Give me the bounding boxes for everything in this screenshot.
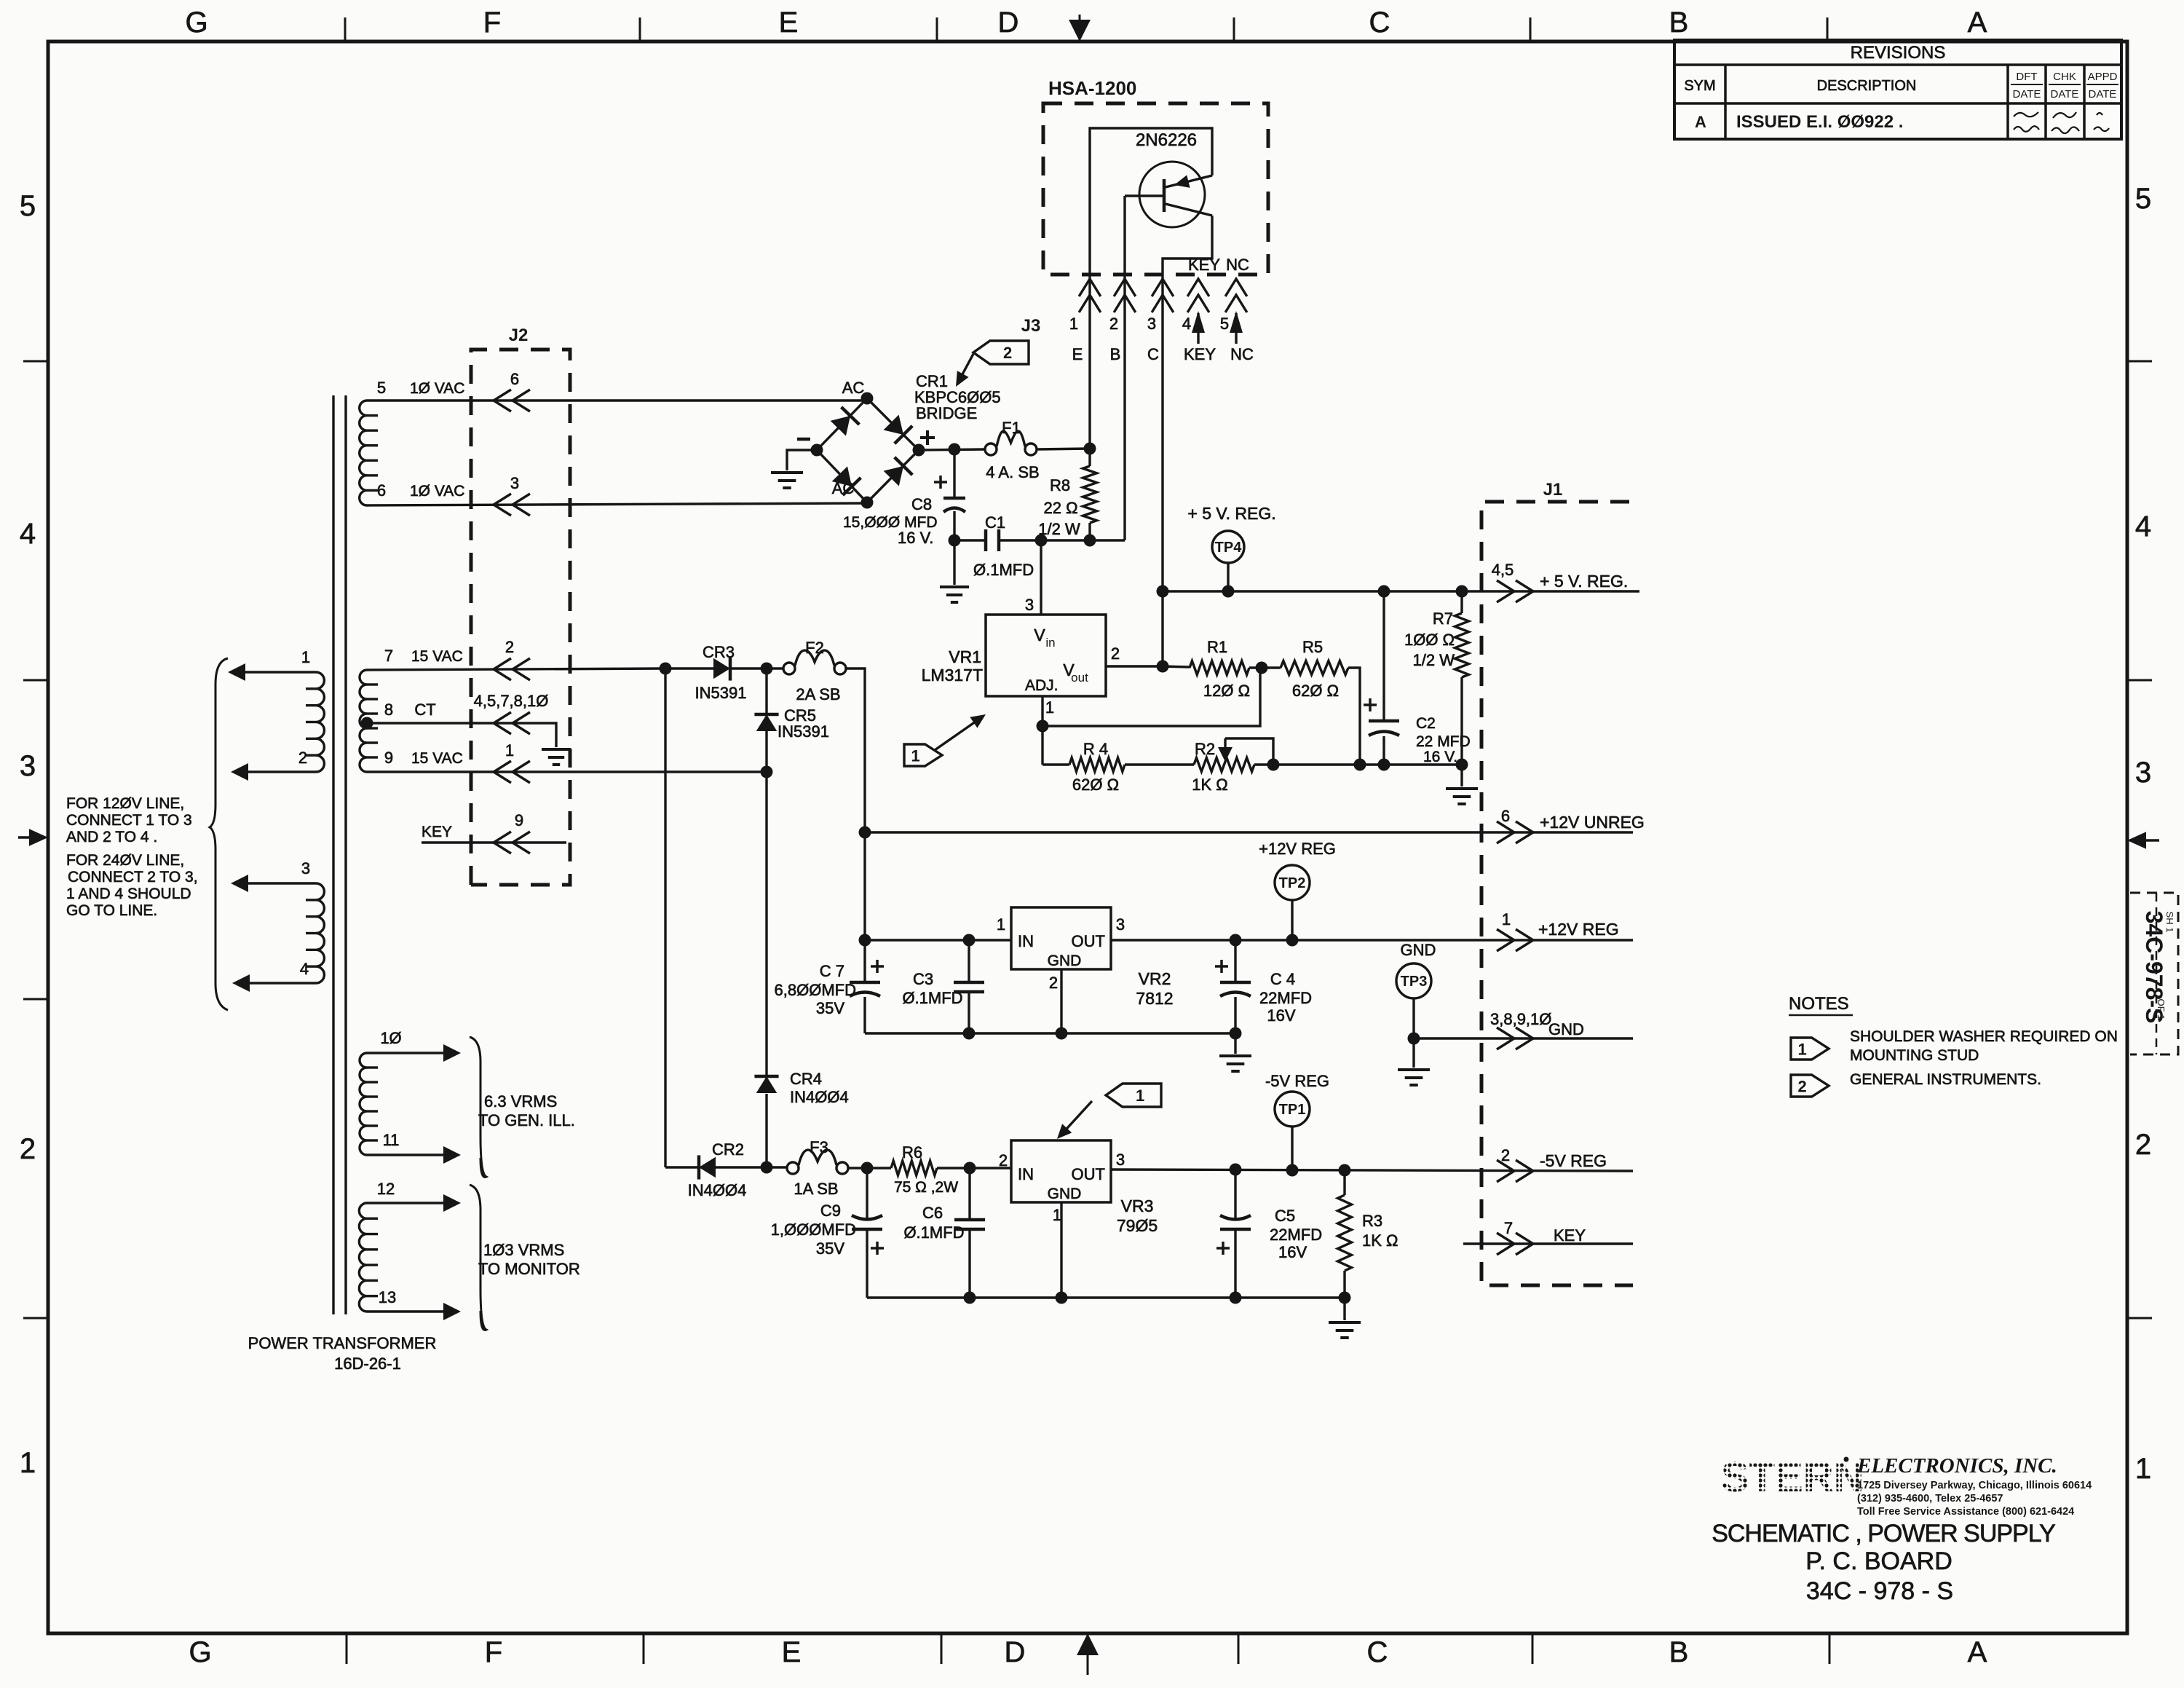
right center alignment arrow: [2127, 832, 2146, 848]
J2 dashed connector box: [471, 350, 570, 885]
svg-text:GND: GND: [1401, 941, 1436, 959]
node R2 right: [1267, 759, 1280, 771]
bridge diode bottom-left: [832, 466, 852, 486]
svg-text:DATE: DATE: [2051, 88, 2079, 100]
svg-text:2: 2: [1501, 1146, 1510, 1164]
capacitor C1: [984, 529, 988, 551]
svg-text:1: 1: [1045, 698, 1054, 717]
svg-text:+12V REG: +12V REG: [1259, 840, 1336, 858]
J2 KEY chevrons: [494, 832, 511, 853]
fuse F2: [783, 663, 795, 674]
svg-text:4: 4: [20, 518, 36, 550]
J3 pin 3 chevrons: [1152, 279, 1174, 296]
svg-text:F: F: [485, 1636, 502, 1668]
svg-text:15 VAC: 15 VAC: [411, 750, 463, 767]
wire C pin to Vout node: [1161, 591, 1163, 666]
VR2 IN rail: [865, 939, 1011, 941]
svg-text:2N6226: 2N6226: [1136, 130, 1197, 150]
svg-text:C 7: C 7: [820, 962, 844, 980]
capacitor C7: [863, 940, 866, 982]
node F1 output: [1084, 443, 1096, 455]
svg-text:DATE: DATE: [2089, 88, 2117, 100]
svg-text:R 4: R 4: [1083, 740, 1108, 758]
resistor R3: [1343, 1170, 1345, 1195]
wire pin7 node down: [664, 669, 666, 1167]
resistor R8: [1088, 449, 1091, 466]
svg-text:5: 5: [377, 379, 386, 397]
svg-text:CR3: CR3: [703, 643, 735, 661]
svg-text:2: 2: [1111, 644, 1120, 663]
svg-text:+12V REG: +12V REG: [1538, 920, 1619, 939]
svg-text:34C - 978 - S: 34C - 978 - S: [1806, 1577, 1953, 1605]
node TP4: [1222, 585, 1235, 598]
-5V rail: [1111, 1170, 1633, 1171]
wire pin8 CT: [367, 722, 518, 724]
svg-text:OUT: OUT: [1072, 932, 1105, 950]
node C3 bottom: [963, 1028, 976, 1040]
secondary 15VAC coil pins 7-8-9: [360, 670, 367, 772]
primary pin 3 wire: [234, 882, 316, 884]
svg-text:22MFD: 22MFD: [1259, 989, 1312, 1007]
svg-text:3: 3: [1025, 596, 1034, 614]
VR2 ground rail: [865, 1032, 1235, 1034]
svg-text:R5: R5: [1302, 638, 1323, 656]
ground below C8: [953, 540, 955, 585]
diode CR5: [765, 669, 767, 714]
secondary 6.3V coil pins 10-11: [360, 1053, 367, 1155]
bridge diode bottom-right: [884, 466, 903, 486]
primary winding 3-4 coil: [316, 883, 324, 983]
svg-text:R6: R6: [902, 1143, 922, 1162]
resistor R6: [891, 1161, 937, 1175]
primary winding 1-2 coil: [316, 672, 324, 772]
svg-text:12: 12: [377, 1180, 395, 1198]
node R1-R5: [1256, 662, 1268, 674]
svg-text:TP2: TP2: [1279, 875, 1306, 891]
wire Vout: [1106, 665, 1163, 667]
revisions table: [1674, 40, 2121, 139]
svg-text:REVISIONS: REVISIONS: [1851, 43, 1946, 63]
svg-text:NC: NC: [1226, 256, 1249, 274]
J1 dashed connector: [1481, 502, 1633, 1285]
svg-text:4: 4: [2135, 510, 2151, 543]
node R7 bottom: [1456, 759, 1468, 771]
svg-text:6,8ØØMFD: 6,8ØØMFD: [775, 981, 856, 999]
GND output line: [1414, 1037, 1633, 1039]
primary brace: [210, 658, 228, 1010]
svg-text:C: C: [1369, 7, 1390, 39]
wire rail to B pin corner: [1090, 539, 1125, 541]
svg-text:F1: F1: [1002, 419, 1021, 437]
svg-text:3: 3: [2135, 757, 2151, 789]
bridge CR1 diamond: [817, 398, 919, 502]
node R3 top: [1339, 1164, 1351, 1177]
svg-text:2: 2: [1003, 344, 1012, 362]
svg-text:35V: 35V: [816, 1239, 844, 1258]
transformer core: [332, 395, 334, 1314]
svg-text:FOR 24ØV LINE,: FOR 24ØV LINE,: [66, 852, 184, 869]
minus label: [797, 438, 810, 441]
J1 +12V reg chevrons: [1497, 929, 1514, 951]
node TP2: [1286, 934, 1299, 947]
svg-text:KEY: KEY: [1184, 345, 1216, 363]
svg-text:IN: IN: [1018, 1165, 1034, 1183]
svg-text:GND: GND: [1048, 1186, 1082, 1202]
svg-text:D: D: [998, 7, 1019, 39]
center tap junction: [361, 717, 373, 730]
right zone ticks: [2127, 361, 2152, 1318]
node C5 top: [1230, 1164, 1242, 1176]
svg-text:CT: CT: [414, 701, 435, 719]
svg-text:E: E: [782, 1636, 802, 1668]
svg-text:1: 1: [20, 1447, 36, 1479]
J2 CT chevrons: [494, 712, 511, 734]
wire pin12: [367, 1202, 455, 1204]
svg-text:22 Ω: 22 Ω: [1043, 499, 1077, 517]
svg-text:LM317T: LM317T: [922, 666, 983, 685]
wire to C2 bottom: [1360, 763, 1384, 765]
resistor R1: [1190, 661, 1249, 675]
svg-text:DESCRIPTION: DESCRIPTION: [1817, 78, 1917, 94]
wire pin7 branch corner to CR2: [665, 1166, 697, 1168]
svg-text:1K Ω: 1K Ω: [1192, 776, 1227, 794]
node R8 bottom: [1084, 535, 1096, 547]
note flag 1 at VR1: [904, 744, 942, 766]
secondary 103V coil pins 12-13: [359, 1203, 367, 1312]
diode CR4: [756, 1076, 778, 1093]
svg-text:7: 7: [384, 647, 393, 665]
svg-text:DFT: DFT: [2016, 71, 2037, 83]
node C4 top: [1230, 934, 1242, 947]
wire R5 to C2 rail: [1348, 668, 1360, 765]
svg-text:CR4: CR4: [790, 1070, 822, 1088]
svg-text:KEY: KEY: [1188, 256, 1220, 274]
svg-text:TP1: TP1: [1279, 1102, 1306, 1118]
node C9 top: [861, 1162, 874, 1175]
wire ADJ stem: [1041, 696, 1043, 726]
svg-text:V: V: [1034, 626, 1045, 644]
bottom center alignment arrow: [1077, 1633, 1099, 1655]
svg-text:A: A: [1968, 7, 1987, 39]
+5V rail: [1163, 590, 1639, 592]
svg-text:5: 5: [1220, 315, 1229, 333]
svg-text:4: 4: [300, 960, 309, 978]
svg-text:75 Ω ,2W: 75 Ω ,2W: [894, 1179, 958, 1196]
svg-text:-5V REG: -5V REG: [1540, 1151, 1607, 1170]
svg-text:4: 4: [1182, 315, 1191, 333]
wire pin5 line to bridge AC top: [866, 398, 868, 401]
svg-text:1: 1: [2135, 1453, 2151, 1485]
diode CR2: [699, 1157, 716, 1178]
svg-text:3: 3: [1147, 315, 1156, 333]
svg-text:BRIDGE: BRIDGE: [916, 404, 977, 422]
svg-text:12Ø Ω: 12Ø Ω: [1203, 682, 1250, 700]
svg-text:1ØØ Ω: 1ØØ Ω: [1404, 631, 1455, 649]
svg-text:OUT: OUT: [1072, 1165, 1105, 1183]
svg-text:F2: F2: [805, 639, 824, 657]
node C8 bottom rail: [949, 535, 961, 547]
node VR2 IN rail: [859, 934, 871, 947]
J1 GND chevrons: [1497, 1028, 1514, 1049]
ground at C2 R7 rail: [1460, 765, 1463, 786]
svg-text:SYM: SYM: [1684, 78, 1715, 94]
base wire to pin 2: [1123, 196, 1125, 540]
svg-text:J3: J3: [1021, 316, 1041, 336]
wire R2 to R5 drop: [1254, 763, 1360, 765]
svg-text:CONNECT 2 TO 3,: CONNECT 2 TO 3,: [68, 869, 198, 886]
fuse F3: [787, 1162, 799, 1174]
svg-text:6: 6: [1501, 807, 1510, 825]
wire F2 corner down to IN rail: [863, 832, 866, 940]
svg-text:1725 Diversey Parkway, Chicago: 1725 Diversey Parkway, Chicago, Illinois…: [1857, 1480, 2092, 1491]
svg-text:9: 9: [515, 811, 523, 829]
svg-text:C6: C6: [922, 1204, 943, 1222]
svg-text:IN: IN: [1018, 932, 1034, 950]
svg-text:Toll Free Service Assistance (: Toll Free Service Assistance (800) 621-6…: [1857, 1506, 2074, 1518]
node TP3 gnd line: [1408, 1033, 1420, 1045]
svg-text:C1: C1: [985, 513, 1005, 532]
TP1 stem: [1291, 1127, 1293, 1170]
svg-text:CR2: CR2: [712, 1140, 744, 1159]
svg-text:DATE: DATE: [2013, 88, 2041, 100]
node bridge AC top: [861, 393, 874, 405]
J1 KEY chevrons: [1497, 1233, 1514, 1255]
svg-text:IN5391: IN5391: [778, 722, 829, 741]
svg-text:MOUNTING STUD: MOUNTING STUD: [1850, 1047, 1979, 1064]
svg-text:J1: J1: [1543, 480, 1563, 500]
wire pin7 node to CR3: [665, 667, 714, 669]
ground below TP3: [1412, 1038, 1415, 1068]
potentiometer R2: [1194, 758, 1254, 772]
svg-text:HSA-1200: HSA-1200: [1048, 77, 1136, 99]
svg-text:R8: R8: [1050, 476, 1070, 494]
svg-text:GENERAL INSTRUMENTS.: GENERAL INSTRUMENTS.: [1850, 1071, 2041, 1088]
TP3 test point: [1396, 963, 1431, 998]
svg-text:2A SB: 2A SB: [796, 685, 840, 703]
node R7 top: [1456, 585, 1468, 598]
svg-text:IN4ØØ4: IN4ØØ4: [688, 1181, 747, 1199]
node bridge minus: [811, 444, 823, 457]
TP1 test point: [1275, 1092, 1310, 1127]
J2 pin 3 chevrons: [494, 494, 511, 516]
node bridge plus: [913, 444, 925, 457]
svg-text:ELECTRONICS, INC.: ELECTRONICS, INC.: [1856, 1454, 2057, 1478]
left zone numbers 5-1: [20, 190, 36, 1479]
svg-text:Ø.1MFD: Ø.1MFD: [973, 561, 1034, 579]
svg-text:1: 1: [1136, 1086, 1144, 1105]
regulator VR1 box: [986, 615, 1106, 696]
svg-text:B: B: [1669, 7, 1689, 39]
bottom zone ticks: [347, 1633, 1829, 1664]
svg-text:2: 2: [1797, 1077, 1806, 1095]
svg-text:TO GEN. ILL.: TO GEN. ILL.: [478, 1111, 575, 1129]
J3 pin 5 chevrons: [1225, 279, 1247, 296]
svg-text:SH 1: SH 1: [2164, 912, 2175, 933]
transistor Q1 2N6226 circle: [1139, 162, 1205, 227]
svg-text:APPD: APPD: [2088, 71, 2118, 83]
+12V unreg rail: [865, 831, 1633, 833]
svg-text:35V: 35V: [816, 999, 844, 1017]
svg-text:J2: J2: [509, 326, 529, 345]
svg-text:Ø.1MFD: Ø.1MFD: [903, 1223, 964, 1242]
bridge diode top-right: [884, 415, 903, 435]
node C2 bottom: [1378, 759, 1390, 771]
svg-text:F3: F3: [810, 1138, 828, 1156]
J2 pin 1 chevrons: [494, 761, 511, 783]
CT ground: [542, 748, 571, 751]
regulator VR2 box: [1011, 907, 1111, 969]
svg-text:SCHEMATIC , POWER SUPPLY: SCHEMATIC , POWER SUPPLY: [1712, 1520, 2055, 1547]
svg-text:GND: GND: [1048, 953, 1082, 969]
TP4 stem: [1227, 563, 1229, 591]
secondary 10VAC coil pins 5-6: [360, 401, 367, 505]
node C2 top: [1378, 585, 1390, 598]
resistor R7: [1460, 591, 1463, 613]
svg-text:+12V UNREG: +12V UNREG: [1540, 813, 1645, 832]
svg-text:OF 1: OF 1: [2156, 999, 2167, 1020]
svg-text:-5V REG: -5V REG: [1265, 1072, 1329, 1090]
svg-text:2: 2: [298, 749, 307, 767]
wire C2 bottom to gnd node: [1384, 763, 1462, 765]
svg-text:C2: C2: [1416, 715, 1436, 732]
primary pin 4 wire: [236, 982, 316, 984]
svg-text:FOR 12ØV LINE,: FOR 12ØV LINE,: [66, 795, 184, 812]
svg-text:16V: 16V: [1278, 1243, 1307, 1261]
node VR3 gnd bottom: [1056, 1292, 1068, 1304]
svg-text:6.3 VRMS: 6.3 VRMS: [484, 1092, 557, 1111]
VR2 OUT rail +12V: [1111, 939, 1633, 941]
svg-text:1/2 W: 1/2 W: [1038, 520, 1080, 538]
svg-text:1: 1: [505, 741, 514, 760]
svg-text:1: 1: [1797, 1040, 1806, 1058]
svg-text:2: 2: [999, 1151, 1008, 1170]
TP2 test point: [1275, 865, 1310, 900]
svg-text:1: 1: [997, 915, 1005, 934]
svg-text:1Ø3 VRMS: 1Ø3 VRMS: [483, 1241, 564, 1259]
svg-text:3: 3: [20, 750, 36, 782]
right zone numbers 5-1: [2135, 183, 2151, 1485]
svg-text:TO MONITOR: TO MONITOR: [478, 1260, 580, 1278]
TP3 stem: [1412, 998, 1415, 1038]
svg-text:in: in: [1045, 636, 1055, 650]
capacitor C5: [1234, 1170, 1236, 1220]
KEY stub wire: [422, 841, 566, 843]
svg-text:22MFD: 22MFD: [1270, 1226, 1322, 1244]
svg-text:79Ø5: 79Ø5: [1117, 1216, 1158, 1235]
wire Vout to R1: [1163, 666, 1190, 667]
svg-text:4,5: 4,5: [1492, 561, 1514, 579]
svg-text:CONNECT 1 TO 3: CONNECT 1 TO 3: [66, 812, 192, 829]
svg-text:4 A. SB: 4 A. SB: [986, 463, 1039, 481]
transistor Q1 collector lead: [1166, 204, 1212, 216]
svg-text:6: 6: [377, 481, 386, 500]
svg-text:R1: R1: [1207, 638, 1227, 656]
svg-text:P. C. BOARD: P. C. BOARD: [1805, 1547, 1952, 1575]
wire R6 to VR3: [937, 1167, 1011, 1169]
bracket 103VRMS: [470, 1185, 486, 1330]
svg-text:C 4: C 4: [1270, 970, 1295, 988]
wire pin13: [367, 1310, 455, 1312]
transistor Q1 base bar: [1163, 179, 1166, 212]
svg-text:62Ø Ω: 62Ø Ω: [1072, 776, 1119, 794]
svg-text:7: 7: [1504, 1219, 1513, 1237]
svg-text:IN5391: IN5391: [695, 684, 747, 702]
VR3 GND stem: [1060, 1202, 1062, 1298]
svg-text:16D-26-1: 16D-26-1: [334, 1354, 401, 1373]
svg-text:3,8,9,1Ø: 3,8,9,1Ø: [1490, 1010, 1551, 1028]
CT ground wire: [518, 723, 556, 747]
svg-text:ISSUED E.I. ØØ922 .: ISSUED E.I. ØØ922 .: [1736, 112, 1903, 132]
svg-text:1: 1: [1053, 1206, 1061, 1224]
capacitor C9: [866, 1168, 868, 1220]
node CR5 bottom: [761, 766, 773, 778]
svg-text:KEY: KEY: [422, 824, 452, 840]
wire Vin stem: [1040, 540, 1042, 615]
svg-text:+ 5 V. REG.: + 5 V. REG.: [1187, 504, 1275, 523]
svg-text:STERN: STERN: [1721, 1454, 1864, 1501]
note flag 2: [1791, 1075, 1829, 1097]
svg-text:3: 3: [1116, 915, 1125, 934]
node VR2 gnd: [1056, 1028, 1068, 1040]
svg-text:16V: 16V: [1267, 1006, 1295, 1025]
J1 +5V chevrons: [1497, 580, 1514, 602]
wire rail to R8 bottom: [1041, 539, 1090, 541]
ground below R3: [1343, 1298, 1345, 1320]
wire bridge plus to F1: [919, 449, 985, 450]
svg-text:C: C: [1147, 345, 1159, 363]
svg-text:A: A: [1968, 1636, 1987, 1668]
VR3 ground rail: [867, 1296, 1345, 1298]
wire pin10: [367, 1052, 455, 1054]
node ADJ: [1037, 720, 1049, 733]
wire pin6 to bridge: [367, 503, 867, 505]
wire ADJ to R1-R5 node: [1042, 669, 1260, 726]
svg-text:CHK: CHK: [2053, 71, 2076, 83]
svg-text:R7: R7: [1433, 610, 1453, 628]
node bridge AC bottom: [861, 497, 874, 509]
svg-text:+ 5 V. REG.: + 5 V. REG.: [1540, 572, 1628, 591]
left zone ticks: [23, 361, 48, 1318]
resistor R5: [1281, 661, 1348, 675]
capacitor C6: [968, 1168, 970, 1220]
VR2 GND stem: [1060, 969, 1062, 1033]
svg-text:GO TO LINE.: GO TO LINE.: [66, 902, 157, 919]
svg-text:1A SB: 1A SB: [794, 1180, 838, 1198]
svg-text:62Ø Ω: 62Ø Ω: [1292, 682, 1339, 700]
ground below C4: [1234, 1033, 1236, 1054]
node TP1: [1286, 1164, 1299, 1177]
wire pin5 to J2: [367, 399, 867, 401]
svg-text:13: 13: [379, 1288, 396, 1306]
svg-text:2: 2: [20, 1133, 36, 1165]
top zone ticks: [345, 17, 1827, 42]
svg-text:C5: C5: [1275, 1207, 1295, 1225]
fuse F1: [985, 443, 997, 455]
capacitor C3: [968, 940, 970, 982]
svg-text:C3: C3: [913, 970, 933, 988]
svg-text:6: 6: [510, 370, 519, 388]
svg-text:1: 1: [1502, 910, 1511, 928]
primary pin 2 wire: [234, 770, 316, 773]
svg-text:3: 3: [510, 474, 519, 492]
node C8 top: [949, 443, 961, 456]
node C5 bottom: [1230, 1292, 1242, 1304]
node R5 drop: [1354, 759, 1366, 771]
TP2 stem: [1291, 900, 1293, 940]
J3 pin 4 chevrons: [1187, 279, 1209, 296]
emitter wire to pin 1: [1090, 128, 1212, 449]
svg-text:1K Ω: 1K Ω: [1362, 1231, 1398, 1250]
